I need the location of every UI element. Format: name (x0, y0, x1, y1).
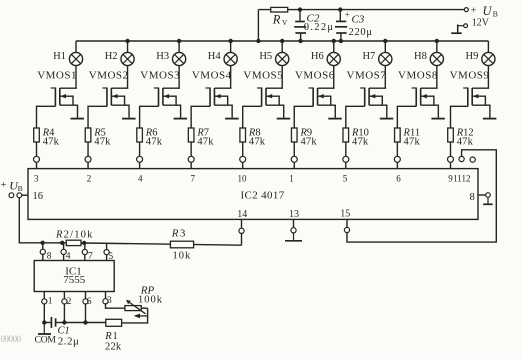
wire lamp H5 feed (281, 41, 283, 52)
transistor VMOS3 (154, 87, 159, 89)
lamp H5 (276, 52, 289, 65)
svg-text:1: 1 (289, 173, 294, 183)
transistor VMOS3 drain lead (178, 66, 180, 88)
ground pin 8 (487, 197, 489, 204)
pin terminal IC1 pin 1 (42, 299, 47, 304)
lamp H3 (173, 52, 186, 65)
svg-text:VMOS3: VMOS3 (140, 70, 180, 82)
node C3 top (338, 7, 342, 11)
svg-text:10k: 10k (173, 250, 192, 261)
node pin 4 junction (60, 241, 64, 245)
wire C1 right lead (56, 322, 64, 324)
node pin6 junction (83, 320, 87, 324)
wire VMOS4 gate lead (191, 106, 210, 128)
svg-text:IC2 4017: IC2 4017 (241, 190, 285, 202)
svg-text:10: 10 (238, 173, 248, 183)
svg-text:100k: 100k (138, 294, 163, 305)
node junction Rv-drop on lamp rail (256, 39, 260, 43)
svg-text:H1: H1 (53, 51, 66, 62)
transistor VMOS4 (205, 87, 210, 89)
node lamp H3 rail junction (177, 39, 181, 43)
svg-text:2: 2 (67, 297, 72, 307)
wire IC1 pin 8 stub (42, 243, 44, 249)
wire left drop from Rv rail to lamp rail (257, 10, 259, 41)
wire pin 3 to RP (106, 304, 125, 308)
wire pin 8 stub (478, 194, 486, 196)
node lamp H5 rail junction (280, 39, 284, 43)
transistor VMOS1 drain lead (75, 66, 77, 88)
pin terminal IC2 pin 15 (344, 227, 349, 232)
wire VMOS1 gate lead (37, 106, 56, 128)
wire pin 10 stub (242, 162, 244, 168)
svg-text:COM: COM (35, 335, 57, 346)
node lamp H2 rail junction (125, 39, 129, 43)
wire VMOS8 gate lead (397, 106, 416, 128)
wire pin 16 stub (22, 194, 28, 196)
svg-text:VMOS9: VMOS9 (450, 70, 490, 82)
wire IC1 pin 7 lower stub (84, 255, 86, 261)
wire R11 to pin (396, 142, 398, 156)
svg-text:H2: H2 (105, 51, 118, 62)
capacitor C1 (50, 317, 52, 328)
capacitor C2 (299, 10, 301, 21)
svg-text:R: R (272, 12, 281, 26)
svg-text:12V: 12V (472, 17, 490, 28)
pin terminal IC2 pin 10 (240, 156, 246, 162)
wire R1 to RP corner (122, 308, 148, 323)
svg-text:VMOS8: VMOS8 (398, 70, 438, 82)
IC U2 4017 box (28, 169, 478, 220)
wire IC1 pin 6 stub (85, 292, 87, 299)
wire IC1 pin 7 stub (84, 243, 86, 249)
pin terminal IC2 pin 9 (448, 156, 454, 162)
wire IC1 pin 4 stub (63, 243, 65, 250)
resistor R8 (240, 128, 246, 142)
wire R5 to pin (87, 142, 89, 156)
svg-text:47k: 47k (300, 137, 317, 148)
wire pin 1 stub (293, 162, 295, 168)
wire pin 13 stub (293, 219, 295, 227)
transistor VMOS2 (102, 87, 107, 89)
wire VMOS5 gate lead (243, 106, 262, 128)
wire R8 to pin (242, 142, 244, 156)
wire VMOS9 gate lead (451, 106, 468, 128)
wire R7 to pin (190, 142, 192, 156)
svg-text:13: 13 (289, 209, 299, 220)
wire IC1 pin 1 stub (43, 292, 45, 299)
wire IC1 pin 8 lower stub (42, 254, 44, 260)
wire pin 9 stub (450, 162, 452, 168)
capacitor C3 (339, 10, 341, 21)
wire pin 11 to pin 15 loop (347, 150, 496, 242)
transistor VMOS9 (463, 87, 468, 89)
transistor VMOS5 drain lead (281, 66, 283, 88)
resistor R11 (395, 128, 401, 142)
resistor R2 (66, 240, 81, 245)
svg-text:47k: 47k (249, 137, 266, 148)
svg-text:H9: H9 (466, 51, 479, 62)
svg-text:1: 1 (48, 297, 53, 307)
wire IC1 pin 4 lower stub (63, 255, 65, 261)
svg-text:C3: C3 (352, 14, 365, 26)
wire IC1 pin 5 stub (106, 244, 108, 250)
pin terminal IC1 pin 4 (61, 249, 66, 254)
transistor VMOS7 drain lead (384, 66, 386, 88)
RP wiper arrow (129, 302, 145, 313)
wire pin 14 stub (241, 219, 243, 228)
wire lamp H6 feed (333, 41, 335, 52)
wire pin 2 drop (63, 304, 65, 323)
pin terminal IC1 pin 3 (103, 299, 108, 304)
svg-text:VMOS6: VMOS6 (295, 70, 335, 82)
pin terminal IC2 pin 5 (343, 156, 349, 162)
svg-text:VMOS2: VMOS2 (89, 70, 129, 82)
pin terminal IC2 pin 4 (137, 156, 143, 162)
wire lamp supply rail (76, 40, 488, 42)
lamp H2 (121, 52, 134, 65)
transistor VMOS4 drain lead (230, 66, 232, 88)
svg-text:6: 6 (396, 173, 401, 183)
wire pin 4 stub (139, 162, 141, 168)
resistor R1 (106, 319, 122, 326)
resistor R5 (85, 128, 91, 142)
svg-text:22k: 22k (105, 341, 122, 352)
svg-text:B: B (18, 184, 23, 193)
wire lamp H2 feed (127, 41, 129, 52)
pin terminal IC2 pin 7 (188, 156, 194, 162)
wire timing rail (43, 243, 242, 245)
node pin 7 junction (82, 241, 86, 245)
wire lamp H4 feed (230, 41, 232, 52)
wire C1 left lead (44, 322, 50, 324)
resistor R10 (343, 128, 349, 142)
transistor VMOS9 drain lead (487, 66, 489, 88)
transistor VMOS6 (309, 87, 314, 89)
wire +UB to timing rail (19, 198, 42, 243)
resistor R3 (170, 241, 193, 248)
svg-text:2.2μ: 2.2μ (58, 336, 80, 348)
terminal 12V (464, 24, 468, 28)
pin terminal IC1 pin 7 (82, 249, 87, 254)
wire lamp H3 feed (178, 41, 180, 52)
pin terminal IC1 pin 8 (40, 249, 45, 254)
svg-text:V: V (282, 18, 288, 27)
svg-text:VMOS7: VMOS7 (347, 70, 387, 82)
svg-text:VMOS5: VMOS5 (243, 70, 283, 82)
svg-text:12: 12 (462, 173, 471, 183)
RP wiper tie (139, 315, 148, 317)
wire pin 1 drop (43, 304, 45, 323)
wire pin 15 stub (346, 219, 348, 227)
pin terminal IC2 pin 11 (459, 156, 464, 161)
svg-text:09000: 09000 (1, 334, 22, 344)
wire IC1 pin 3 stub (105, 292, 107, 299)
node lamp H4 rail junction (228, 39, 232, 43)
transistor VMOS1 (51, 87, 56, 89)
node C2 bottom (298, 39, 302, 43)
wire VMOS6 gate lead (294, 106, 313, 128)
wire lamp H1 feed (75, 41, 77, 52)
IC U1 7555 box (34, 261, 114, 292)
terminal +UB top right (464, 8, 468, 12)
pin terminal IC2 pin 1 (291, 156, 297, 162)
svg-text:14: 14 (237, 209, 247, 220)
svg-text:11: 11 (453, 173, 462, 183)
svg-text:47k: 47k (197, 137, 214, 148)
wire top supply rail (258, 9, 464, 11)
wire VMOS7 gate lead (346, 106, 365, 128)
svg-text:R3: R3 (171, 227, 187, 239)
wire VMOS2 gate lead (88, 106, 107, 128)
wire R4 to pin (36, 142, 38, 156)
wire pin 6 drop (85, 304, 87, 323)
switch S to 12V (458, 25, 464, 27)
wire R12 to pin (450, 142, 452, 156)
node C2 top (298, 7, 302, 11)
potentiometer RP (125, 306, 141, 311)
svg-text:4: 4 (138, 173, 143, 183)
svg-text:47k: 47k (352, 137, 369, 148)
wire lamp H8 feed (436, 41, 438, 52)
transistor VMOS6 drain lead (333, 66, 335, 88)
transistor VMOS8 drain lead (436, 66, 438, 88)
pin terminal IC1 pin 5 (104, 250, 109, 255)
lamp H6 (327, 52, 340, 65)
svg-text:VMOS1: VMOS1 (37, 70, 77, 82)
svg-text:B: B (493, 10, 498, 19)
resistor R7 (188, 128, 194, 142)
wire lamp H7 feed (384, 41, 386, 52)
transistor VMOS2 drain lead (127, 66, 129, 88)
pin terminal IC2 pin 6 (394, 156, 400, 162)
wire pin 7 stub (190, 162, 192, 168)
wire R9 to pin (293, 142, 295, 156)
resistor R4 (34, 128, 40, 142)
svg-text:47k: 47k (94, 137, 111, 148)
svg-text:16: 16 (33, 191, 44, 202)
transistor VMOS5 (257, 87, 262, 89)
node pin 8 junction (40, 241, 44, 245)
svg-text:47k: 47k (43, 137, 60, 148)
svg-text:H5: H5 (259, 51, 272, 62)
wire bottom net (64, 322, 105, 324)
pin 16 terminals +UB left (9, 193, 14, 198)
node lamp H7 rail junction (383, 39, 387, 43)
pin terminal IC2 pin 8 (486, 193, 491, 198)
svg-text:U: U (483, 4, 493, 18)
svg-text:VMOS4: VMOS4 (192, 70, 232, 82)
svg-text:6: 6 (87, 297, 92, 307)
svg-text:+: + (345, 9, 350, 19)
resistor Rv (271, 7, 288, 12)
svg-text:0.22μ: 0.22μ (304, 22, 335, 33)
lamp H1 (69, 52, 82, 65)
svg-text:7555: 7555 (63, 274, 86, 286)
node pin2 junction (62, 320, 66, 324)
resistor R12 (448, 128, 454, 142)
svg-text:H6: H6 (311, 51, 324, 62)
node pin1/ground junction (42, 320, 46, 324)
ground pin 13 (293, 233, 295, 240)
wire pin 5 stub (345, 162, 347, 168)
node C3 bottom (339, 39, 343, 43)
resistor R6 (137, 128, 143, 142)
svg-text:47k: 47k (404, 137, 421, 148)
pin terminal IC2 pin 2 (85, 156, 91, 162)
svg-text:47k: 47k (457, 137, 474, 148)
svg-text:8: 8 (470, 192, 475, 203)
pin terminal IC1 pin 2 (62, 299, 67, 304)
node lamp H8 rail junction (435, 39, 439, 43)
svg-text:2: 2 (87, 173, 92, 183)
pin terminal IC2 pin 12 (470, 157, 475, 162)
svg-text:H7: H7 (362, 51, 375, 62)
pin terminal IC2 pin 13 (291, 228, 296, 233)
resistor R9 (291, 128, 297, 142)
svg-text:R2/10k: R2/10k (55, 230, 94, 241)
wire RP right lead (141, 307, 147, 309)
wire IC1 pin 2 stub (63, 292, 65, 299)
svg-text:+: + (1, 180, 7, 191)
pin terminal IC2 pin 3 (34, 156, 40, 162)
pin terminal IC2 pin 14 (239, 228, 244, 233)
svg-text:47k: 47k (146, 137, 163, 148)
wire R6 to pin (139, 142, 141, 156)
svg-text:R1: R1 (104, 331, 118, 342)
svg-text:15: 15 (340, 209, 350, 220)
svg-text:3: 3 (107, 296, 112, 306)
ground COM (43, 323, 45, 334)
svg-text:3: 3 (34, 173, 39, 183)
svg-text:7: 7 (191, 173, 196, 183)
lamp H7 (379, 52, 392, 65)
wire pin 14 drop (241, 233, 243, 245)
wire IC1 pin 5 lower stub (106, 255, 108, 261)
transistor VMOS8 (412, 87, 417, 89)
lamp H8 (430, 52, 443, 65)
svg-text:H8: H8 (414, 51, 427, 62)
node lamp H6 rail junction (332, 39, 336, 43)
transistor VMOS7 (360, 87, 365, 89)
svg-text:H4: H4 (208, 51, 222, 62)
wire pin 6 stub (396, 162, 398, 168)
wire VMOS3 gate lead (140, 106, 159, 128)
pin terminal IC1 pin 6 (83, 299, 88, 304)
svg-text:220μ: 220μ (349, 27, 373, 38)
wire R10 to pin (345, 142, 347, 156)
wire pin 3 stub (36, 162, 38, 168)
lamp H4 (224, 52, 237, 65)
svg-text:H3: H3 (156, 51, 169, 62)
svg-text:+: + (471, 5, 477, 16)
lamp H9 (482, 52, 495, 65)
wire lamp H9 feed (487, 41, 489, 52)
wire pin 2 stub (87, 162, 89, 168)
svg-text:5: 5 (343, 173, 348, 183)
